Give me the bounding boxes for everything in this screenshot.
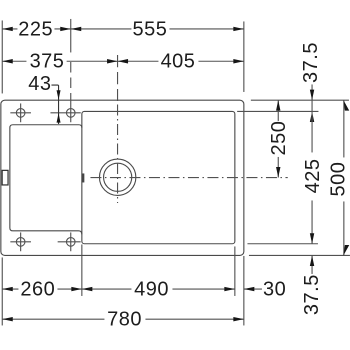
extension line left bottom bbox=[1, 257, 3, 325]
dimension 405 bbox=[118, 59, 244, 63]
overflow marker on left rim bbox=[2, 170, 8, 185]
dimension 250 right bbox=[276, 100, 280, 177]
svg-text:260: 260 bbox=[20, 278, 55, 300]
extension line bowl-left bottom bbox=[81, 244, 83, 296]
svg-text:225: 225 bbox=[18, 18, 53, 40]
dimension 37.5 bottom-right bbox=[310, 255, 314, 274]
tap hole top-left bbox=[10, 103, 31, 122]
dimension 37.5 top-right bbox=[310, 84, 314, 122]
horizontal centerline through drain bbox=[90, 177, 287, 179]
svg-text:375: 375 bbox=[30, 51, 65, 73]
svg-text:425: 425 bbox=[302, 158, 324, 193]
svg-text:250: 250 bbox=[268, 121, 290, 156]
dimension 555 bbox=[71, 27, 244, 31]
left ledge (half bowl) bbox=[10, 125, 82, 235]
sink outer outline bbox=[1, 100, 244, 255]
svg-text:43: 43 bbox=[28, 73, 51, 95]
svg-text:37.5: 37.5 bbox=[300, 42, 322, 83]
dimension 500 right bbox=[343, 100, 349, 255]
tap hole bottom-right bbox=[58, 232, 81, 251]
extension line left top bbox=[1, 20, 3, 93]
overflow tick on bowl left edge bbox=[82, 173, 85, 182]
svg-text:37.5: 37.5 bbox=[301, 274, 323, 315]
dimension 43 leader and arrows bbox=[51, 85, 60, 124]
extension line sink-right bottom bbox=[243, 256, 245, 326]
dimension 375 bbox=[2, 59, 117, 63]
svg-text:500: 500 bbox=[328, 162, 350, 197]
drain outer circle bbox=[99, 159, 135, 195]
tap hole bottom-left bbox=[10, 232, 31, 251]
extension line right top bbox=[243, 21, 245, 92]
svg-text:490: 490 bbox=[134, 278, 169, 300]
dimension 425 right bbox=[310, 100, 314, 244]
vertical centerline through drain bbox=[117, 55, 119, 101]
svg-text:30: 30 bbox=[263, 278, 286, 300]
extension line hole column top bbox=[70, 19, 72, 53]
right side horizontal extension lines bbox=[251, 99, 349, 101]
extension line bowl-right bottom bbox=[234, 246, 236, 296]
svg-text:405: 405 bbox=[161, 51, 196, 73]
dimension 225 bbox=[2, 27, 71, 31]
drain inner circle bbox=[104, 163, 132, 191]
tap hole top-right bbox=[50, 103, 80, 122]
dimension 260 bbox=[2, 287, 82, 291]
dashed extension to tap hole column bbox=[70, 62, 72, 104]
svg-text:780: 780 bbox=[107, 309, 142, 331]
dimension 780 bbox=[2, 317, 244, 321]
dimension 490 bbox=[82, 287, 235, 291]
dimension 30 bbox=[244, 287, 262, 291]
svg-text:555: 555 bbox=[132, 18, 167, 40]
main bowl bbox=[82, 111, 235, 243]
